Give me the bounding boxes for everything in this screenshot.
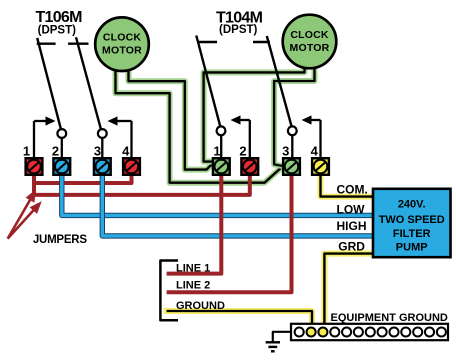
switch T104M pivot a [217, 126, 226, 135]
svg-text:HIGH: HIGH [337, 219, 367, 233]
svg-text:MOTOR: MOTOR [102, 45, 142, 57]
wire stub pivot-a to terminal block1-2 [61, 138, 63, 157]
jumper pointer arrow 2 [8, 209, 35, 239]
terminal block2-3 (green) [283, 158, 300, 175]
wire green motor1 left leg to terminal block2-3 [116, 66, 282, 183]
svg-text:2: 2 [52, 144, 59, 159]
wire yellow terminal block2-4 to pump COM [321, 173, 375, 197]
terminal block1-2 (blue) [53, 158, 70, 175]
bracket line terminals [160, 261, 178, 321]
clock motor M2 [283, 15, 337, 69]
switch T104M fixed bar a [198, 41, 217, 43]
wire red terminal block2-3 to LINE 2 [167, 172, 292, 292]
equipment ground bus bar [291, 324, 448, 340]
switch T106M blade a [37, 38, 61, 129]
svg-text:CLOCK: CLOCK [103, 32, 142, 44]
switch T104M fixed bar b [253, 41, 270, 43]
wire green motor2 right leg to terminal block2-3 [274, 64, 314, 166]
arrow terminal block2-4 to pole [319, 120, 321, 157]
svg-text:MOTOR: MOTOR [290, 42, 330, 54]
switch T106M fixed bar a [37, 43, 56, 45]
ground symbol [273, 332, 291, 342]
terminal block2-2 (red) [241, 158, 258, 175]
svg-text:PUMP: PUMP [396, 242, 428, 254]
wire yellow pump GRD to ground bus [324, 254, 374, 325]
svg-text:LINE 2: LINE 2 [176, 280, 210, 292]
svg-text:T106M: T106M [35, 9, 82, 26]
svg-text:240V.: 240V. [398, 199, 426, 211]
terminal block1-4 (red) [123, 158, 140, 175]
clock motor M1 [95, 17, 149, 71]
svg-text:GRD: GRD [338, 239, 365, 253]
svg-text:1: 1 [23, 144, 30, 159]
arrow terminal block1-1 to pole [33, 121, 35, 157]
svg-text:GROUND: GROUND [176, 300, 225, 312]
terminal block1-3 (blue) [94, 158, 111, 175]
svg-text:TWO SPEED: TWO SPEED [379, 214, 445, 226]
switch T106M blade b [76, 37, 101, 129]
wire red jumper terminal block1-1 to block1-4 [34, 172, 132, 183]
wire green motor2 left leg to terminal block2-1 [204, 64, 305, 162]
svg-text:4: 4 [122, 144, 130, 159]
terminal block1-1 (red) [26, 158, 43, 175]
svg-text:EQUIPMENT GROUND: EQUIPMENT GROUND [331, 312, 448, 324]
switch T104M blade b [267, 36, 292, 127]
svg-text:COM.: COM. [337, 183, 368, 197]
svg-text:LOW: LOW [337, 202, 366, 216]
svg-text:(DPST): (DPST) [219, 24, 258, 36]
switch T106M pivot b [98, 129, 107, 138]
wire stub pivot-b to terminal block2-3 [291, 135, 293, 157]
svg-text:(DPST): (DPST) [38, 25, 77, 37]
switch T106M pivot a [57, 129, 66, 138]
switch T106M fixed bar b [68, 43, 88, 45]
wire blue terminal block1-2 to pump LOW [62, 172, 374, 215]
arrow terminal block1-4 to pole [130, 121, 132, 157]
arrow terminal block2-2 to pole [249, 120, 251, 157]
svg-text:3: 3 [94, 144, 101, 159]
svg-text:4: 4 [311, 144, 319, 159]
terminal block2-1 (green) [213, 158, 230, 175]
svg-text:JUMPERS: JUMPERS [33, 234, 87, 246]
svg-text:LINE 1: LINE 1 [176, 263, 210, 275]
wire blue terminal block1-3 to pump HIGH [102, 172, 374, 236]
wire green motor1 right leg to terminal block2-1 [129, 66, 212, 170]
svg-text:3: 3 [282, 144, 289, 159]
svg-text:FILTER: FILTER [393, 228, 431, 240]
jumper pointer arrow 1 [8, 198, 31, 238]
switch T104M blade a [196, 36, 220, 127]
wire red feed terminal block1-1 to block2-2 [34, 172, 250, 195]
svg-text:1: 1 [213, 144, 220, 159]
switch T104M pivot b [288, 126, 297, 135]
pump box 240V two speed filter pump [373, 189, 451, 257]
wire stub pivot-b to terminal block1-3 [101, 138, 103, 157]
wire red terminal block2-1 to LINE 1 [167, 172, 222, 274]
svg-text:2: 2 [239, 144, 246, 159]
svg-text:CLOCK: CLOCK [290, 29, 329, 41]
terminal block2-4 (yellow) [312, 158, 329, 175]
wire stub pivot-a to terminal block2-1 [220, 135, 222, 157]
wire yellow GROUND line to ground bus [167, 311, 312, 325]
